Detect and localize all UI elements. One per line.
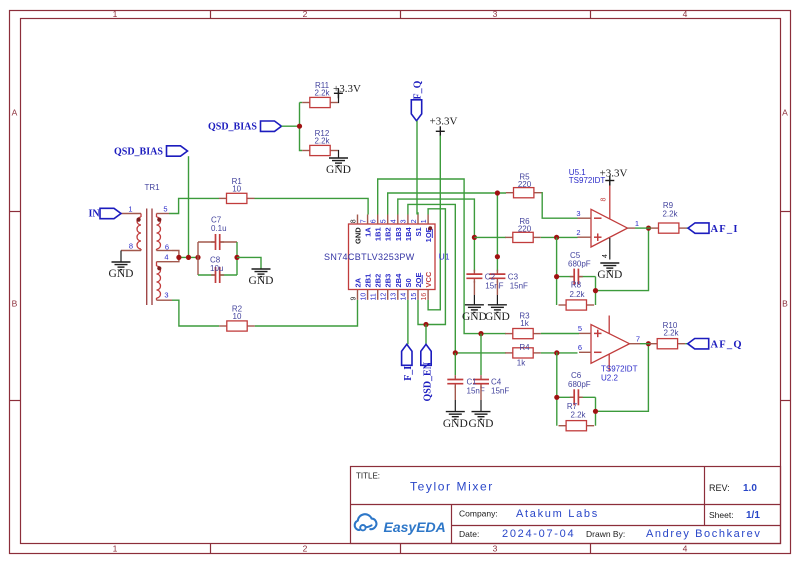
svg-text:GND: GND <box>354 227 363 244</box>
svg-text:3: 3 <box>493 9 498 19</box>
svg-text:680pF: 680pF <box>568 380 591 389</box>
svg-text:220: 220 <box>518 180 532 189</box>
svg-text:C6: C6 <box>571 371 582 380</box>
ground at R12 <box>326 158 351 176</box>
svg-text:Teylor Mixer: Teylor Mixer <box>410 480 494 494</box>
net label AF_I <box>688 223 739 235</box>
svg-text:IN: IN <box>89 209 101 220</box>
transformer TR1 secondary winding pins 5-6 <box>157 214 173 251</box>
svg-text:220: 220 <box>518 225 532 234</box>
svg-text:15: 15 <box>411 293 418 301</box>
junction stray on C3 <box>495 254 500 259</box>
net label QSD_BIAS (left) <box>114 146 188 158</box>
IC U1 bottom pin numbers <box>350 293 428 301</box>
wire C2 to ground <box>473 281 475 295</box>
svg-text:TR1: TR1 <box>145 183 161 192</box>
svg-text:AF_I: AF_I <box>711 224 739 235</box>
junction feedback I right <box>593 288 598 293</box>
svg-text:10: 10 <box>360 293 367 301</box>
wire U2.2 output feedback <box>596 344 649 412</box>
svg-text:2B1: 2B1 <box>364 274 373 288</box>
wire C2 branch <box>473 237 475 271</box>
svg-text:15nF: 15nF <box>467 386 485 395</box>
transformer TR1 core <box>147 209 152 306</box>
title block grid <box>351 467 781 544</box>
svg-text:5: 5 <box>578 324 582 333</box>
wire R12 to ground <box>337 151 340 159</box>
IC U1 1OE overline <box>431 229 433 238</box>
svg-text:GND: GND <box>597 269 622 281</box>
wire R4 row <box>455 352 506 354</box>
svg-text:4: 4 <box>602 254 609 258</box>
wire center tap node <box>179 256 198 258</box>
svg-text:2.2k: 2.2k <box>569 290 585 299</box>
junction R4 node <box>453 350 458 355</box>
junction feedback Q right <box>593 409 598 414</box>
power +3.3V at U1 VCC <box>430 116 458 137</box>
svg-text:1: 1 <box>635 219 639 228</box>
svg-text:VCC: VCC <box>424 271 433 287</box>
svg-text:2.2k: 2.2k <box>662 209 678 218</box>
wire C1 branch <box>454 353 456 375</box>
svg-text:REV:: REV: <box>709 483 730 493</box>
transformer TR1 primary winding pins 1-8 <box>121 214 141 251</box>
svg-text:8: 8 <box>129 242 133 251</box>
wire cap block top edge <box>198 241 237 243</box>
svg-text:15nF: 15nF <box>491 386 509 395</box>
power +3.3V at R11 <box>333 83 361 98</box>
IC U1 bottom pin names <box>354 271 434 287</box>
transformer TR1 secondary winding pins 4-3 <box>157 262 173 301</box>
svg-text:1.0: 1.0 <box>743 483 757 494</box>
svg-text:GND: GND <box>443 418 468 430</box>
svg-text:SN74CBTLV3253PW: SN74CBTLV3253PW <box>324 252 415 262</box>
svg-text:R8: R8 <box>571 281 582 290</box>
junction node center tap B <box>186 255 191 260</box>
svg-text:4: 4 <box>683 9 688 19</box>
capacitor C7 <box>211 234 224 251</box>
svg-text:3: 3 <box>401 219 408 223</box>
resistor R1 <box>219 177 255 204</box>
net label IN <box>89 208 122 219</box>
junction R6 row <box>472 235 477 240</box>
svg-text:3: 3 <box>493 544 498 554</box>
junction node center tap A <box>176 255 181 260</box>
svg-text:TS972IDT: TS972IDT <box>601 364 638 373</box>
svg-text:9: 9 <box>350 297 357 301</box>
ground at C4 <box>469 412 494 430</box>
svg-text:1k: 1k <box>520 319 529 328</box>
power +3.3V at U5.1 <box>600 167 628 185</box>
svg-text:1: 1 <box>113 9 118 19</box>
junction QSD_BIAS node <box>297 124 302 129</box>
svg-text:AF_Q: AF_Q <box>711 339 743 350</box>
svg-text:6: 6 <box>578 343 582 352</box>
svg-text:Company:: Company: <box>459 509 498 519</box>
svg-text:C4: C4 <box>491 378 502 387</box>
capacitor C3 <box>489 270 506 283</box>
svg-text:Andrey Bochkarev: Andrey Bochkarev <box>646 528 761 540</box>
op-amp U5.1 TS972IDT <box>578 181 636 260</box>
svg-text:Atakum Labs: Atakum Labs <box>516 508 599 520</box>
wire feedback I right vertical <box>595 277 597 305</box>
junction feedback I <box>554 235 559 240</box>
ground at cap block <box>249 269 274 287</box>
svg-text:4: 4 <box>391 219 398 223</box>
svg-text:U1: U1 <box>439 252 450 262</box>
resistor R4 <box>505 348 541 358</box>
svg-text:4: 4 <box>164 253 168 262</box>
svg-text:12: 12 <box>381 293 388 301</box>
junction U5.1 output <box>646 226 651 231</box>
svg-text:1B2: 1B2 <box>384 227 393 241</box>
wire feedback I left vertical <box>556 237 558 305</box>
junction QSD_EN <box>423 322 428 327</box>
wire feedback Q left vertical <box>556 352 558 425</box>
svg-text:A: A <box>12 108 18 118</box>
svg-text:QSD_BIAS: QSD_BIAS <box>114 147 163 158</box>
junction U2.2 output <box>646 341 651 346</box>
svg-text:Drawn By:: Drawn By: <box>586 529 625 539</box>
capacitor C4 <box>473 375 490 388</box>
svg-text:2.2k: 2.2k <box>314 89 330 98</box>
svg-text:2024-07-04: 2024-07-04 <box>502 528 575 540</box>
svg-text:Sheet:: Sheet: <box>709 510 734 520</box>
wire F_Q to U1 pin 2 (S1) <box>416 121 418 215</box>
junction C1 row <box>478 331 483 336</box>
wire U5.1 output <box>635 227 651 229</box>
svg-text:EasyEDA: EasyEDA <box>384 519 446 535</box>
wire C6 row <box>557 396 596 398</box>
resistor R12 <box>302 129 338 156</box>
net label QSD_EN <box>421 344 434 401</box>
svg-text:2: 2 <box>411 219 418 223</box>
svg-text:11: 11 <box>371 293 378 300</box>
ground at C3 <box>485 305 510 323</box>
wire C3 to ground <box>496 281 498 295</box>
svg-text:1B4: 1B4 <box>404 226 413 241</box>
svg-text:8: 8 <box>350 219 357 223</box>
svg-text:5: 5 <box>163 205 167 214</box>
svg-text:QSD_BIAS: QSD_BIAS <box>208 122 257 133</box>
wire R3 to op-amp pin5 <box>541 333 579 335</box>
wire QSD_EN stem <box>425 325 427 345</box>
svg-text:TITLE:: TITLE: <box>356 472 380 481</box>
svg-text:6: 6 <box>165 243 169 252</box>
net label F_I <box>402 344 414 381</box>
resistor R2 <box>219 305 255 332</box>
svg-text:680pF: 680pF <box>568 260 591 269</box>
IC U1 2OE overline <box>421 275 423 284</box>
svg-text:GND: GND <box>485 311 510 323</box>
svg-text:1/1: 1/1 <box>746 510 760 521</box>
svg-text:R4: R4 <box>519 343 530 352</box>
wire QSD_BIAS to TR1 center tap node <box>188 156 190 257</box>
resistor R9 <box>651 223 687 233</box>
svg-text:0.1u: 0.1u <box>211 224 227 233</box>
wire TR1 pin3 to R2 <box>172 300 219 326</box>
wire QSD_BIAS to R11/R12 <box>282 125 300 127</box>
wire R10 to AF_Q <box>685 343 688 345</box>
ground at C2 <box>462 305 487 323</box>
net label F_Q <box>411 80 423 120</box>
wire C3 branch <box>496 193 498 272</box>
wire fix pin2 <box>417 213 418 215</box>
resistor R5 <box>506 173 542 198</box>
resistor R6 <box>505 217 541 243</box>
wire R1 to U1 pin 7 (1A) <box>255 198 369 214</box>
svg-text:1B3: 1B3 <box>394 227 403 241</box>
wire +3.3V to U1 pin 16 (VCC) <box>428 136 440 310</box>
ground at C1 <box>443 412 468 430</box>
resistor R7 <box>559 421 595 431</box>
wire R4 to op-amp pin6 <box>541 352 578 354</box>
svg-text:1B1: 1B1 <box>374 227 383 241</box>
ground at TR1 pin 8 <box>109 251 134 281</box>
wire feedback Q right vertical <box>595 397 597 425</box>
capacitor C5 <box>570 268 583 285</box>
svg-text:8: 8 <box>600 198 607 202</box>
svg-text:2A: 2A <box>354 277 363 287</box>
svg-text:3: 3 <box>576 209 580 218</box>
IC U1 pin1 mark <box>428 226 432 230</box>
svg-text:16: 16 <box>421 293 428 301</box>
wire U1 pin1 (1OE) to QSD_EN <box>426 209 445 325</box>
wire C5 row <box>557 276 596 278</box>
wire U5.1 output feedback <box>596 228 649 291</box>
wire TR1 pin6-pin4 tie <box>172 251 179 262</box>
svg-text:2: 2 <box>303 9 308 19</box>
capacitor C1 <box>447 375 464 388</box>
ground at U5.1 pin4 <box>597 263 622 281</box>
svg-text:2.2k: 2.2k <box>570 411 586 420</box>
svg-text:F_I: F_I <box>403 366 414 381</box>
wire R6 row <box>474 236 506 238</box>
svg-text:U2.2: U2.2 <box>601 373 618 382</box>
svg-text:1: 1 <box>421 219 428 223</box>
svg-text:10: 10 <box>232 185 241 194</box>
svg-text:GND: GND <box>249 275 274 287</box>
svg-text:2OE: 2OE <box>414 272 423 287</box>
svg-text:A: A <box>782 108 788 118</box>
svg-text:C1: C1 <box>467 378 478 387</box>
svg-text:2B2: 2B2 <box>374 274 383 288</box>
resistor R10 <box>650 339 686 349</box>
svg-text:GND: GND <box>326 164 351 176</box>
svg-text:+3.3V: +3.3V <box>430 116 458 128</box>
svg-text:2: 2 <box>576 228 580 237</box>
junction C6 left <box>554 395 559 400</box>
svg-text:2.2k: 2.2k <box>663 328 679 337</box>
EasyEDA logo <box>355 514 446 535</box>
wire U2.2 output <box>640 343 650 345</box>
wire cap block to ground <box>237 257 261 269</box>
wire R11 to +3.3V <box>337 91 340 103</box>
wire U1 pin6 (1B1) to R3 row <box>378 179 506 334</box>
svg-text:F_Q: F_Q <box>412 80 423 99</box>
svg-text:S0: S0 <box>404 278 413 287</box>
svg-text:B: B <box>782 299 788 309</box>
wire R11 corner <box>300 102 303 104</box>
svg-text:S1: S1 <box>414 227 423 236</box>
svg-text:1A: 1A <box>364 227 373 237</box>
svg-text:GND: GND <box>109 268 134 280</box>
svg-text:+3.3V: +3.3V <box>600 167 628 179</box>
svg-text:13: 13 <box>391 293 398 301</box>
IC U1 top pin names <box>354 226 434 243</box>
svg-text:1k: 1k <box>517 359 526 368</box>
junction cap block right <box>234 255 239 260</box>
net label AF_Q <box>688 339 743 351</box>
svg-text:6: 6 <box>371 219 378 223</box>
wire U1 pin3 (1B4) to R4 row <box>408 204 455 353</box>
resistor R3 <box>505 312 541 339</box>
wire R2 to U1 pin 9 (2A) <box>255 300 358 326</box>
junction node center tap C <box>195 255 200 260</box>
svg-text:2: 2 <box>303 544 308 554</box>
wire C4 branch <box>480 334 482 375</box>
junction R5 row <box>495 190 500 195</box>
svg-text:QSD_EN: QSD_EN <box>423 361 434 401</box>
junction C5 left <box>554 274 559 279</box>
wire R6 to op-amp pin2 <box>541 236 578 238</box>
svg-text:14: 14 <box>401 293 408 301</box>
wire C4 to ground <box>480 386 482 400</box>
junction feedback Q <box>554 350 559 355</box>
wire U1 pin4 (1B3) to R6 row <box>398 199 475 237</box>
wire TR1 pin5 to R1 <box>169 198 219 213</box>
resistor R11 <box>302 81 338 108</box>
wire U1 pin15 (2OE) to QSD_EN <box>418 300 426 325</box>
svg-text:15nF: 15nF <box>485 281 503 290</box>
svg-text:GND: GND <box>462 311 487 323</box>
svg-text:15nF: 15nF <box>510 281 528 290</box>
capacitor C2 <box>466 270 483 283</box>
op-amp U2.2 TS972IDT <box>579 316 640 372</box>
wire cap block bottom edge <box>198 274 237 276</box>
svg-text:7: 7 <box>360 219 367 223</box>
wire U1 pin14 (S0) to F_I <box>407 300 409 345</box>
svg-text:4: 4 <box>683 544 688 554</box>
svg-text:10: 10 <box>233 312 242 321</box>
svg-text:1: 1 <box>128 205 132 214</box>
svg-text:Date:: Date: <box>459 529 479 539</box>
IC U1 body SN74CBTLV3253PW <box>349 215 436 300</box>
wire cap block right edge <box>236 242 238 275</box>
svg-text:2B3: 2B3 <box>384 274 393 288</box>
svg-text:7: 7 <box>636 335 640 344</box>
capacitor C6 <box>570 389 583 406</box>
wire U1 pin5 (1B2) to R5 row <box>388 193 506 215</box>
svg-text:2B4: 2B4 <box>394 273 403 288</box>
resistor R8 <box>559 300 595 310</box>
svg-text:2.2k: 2.2k <box>314 137 330 146</box>
svg-text:GND: GND <box>469 418 494 430</box>
wire R11-R12 vertical <box>300 103 303 151</box>
svg-text:3: 3 <box>164 291 168 300</box>
svg-text:1: 1 <box>113 544 118 554</box>
svg-text:10u: 10u <box>210 264 223 273</box>
wire cap block left edge <box>197 242 199 275</box>
net label QSD_BIAS (right) <box>208 121 282 133</box>
svg-text:5: 5 <box>381 219 388 223</box>
capacitor C8 <box>211 267 224 284</box>
wire R5 to op-amp pin3 <box>542 193 578 219</box>
svg-text:B: B <box>12 299 18 309</box>
wire C1 to ground <box>454 386 456 400</box>
IC U1 top pin numbers <box>350 219 428 223</box>
wire R9 to AF_I <box>687 227 689 229</box>
